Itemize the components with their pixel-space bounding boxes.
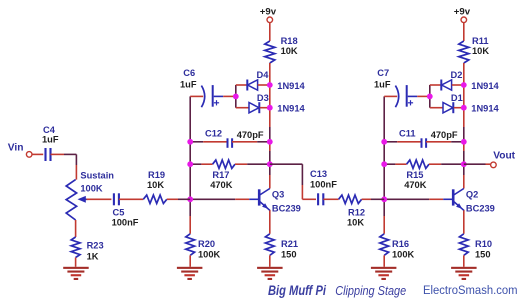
- svg-text:10K: 10K: [472, 46, 489, 56]
- svg-text:470pF: 470pF: [431, 130, 458, 140]
- svg-text:R16: R16: [392, 239, 409, 249]
- svg-text:Clipping Stage: Clipping Stage: [335, 283, 406, 298]
- svg-text:R21: R21: [281, 239, 298, 249]
- svg-text:10K: 10K: [281, 46, 298, 56]
- svg-text:150: 150: [281, 249, 297, 259]
- svg-text:1N914: 1N914: [471, 81, 499, 91]
- svg-text:D1: D1: [451, 93, 463, 103]
- svg-text:1N914: 1N914: [277, 104, 305, 114]
- svg-text:C6: C6: [183, 68, 195, 78]
- svg-text:Vin: Vin: [8, 143, 24, 154]
- svg-text:100K: 100K: [198, 249, 221, 259]
- svg-text:R18: R18: [281, 36, 298, 46]
- svg-text:1N914: 1N914: [277, 81, 305, 91]
- svg-text:D3: D3: [257, 93, 269, 103]
- svg-text:100K: 100K: [80, 184, 103, 194]
- svg-text:1uF: 1uF: [374, 79, 391, 89]
- svg-text:1N914: 1N914: [471, 104, 499, 114]
- svg-text:1uF: 1uF: [180, 79, 197, 89]
- svg-text:470K: 470K: [404, 180, 427, 190]
- svg-text:R12: R12: [348, 207, 365, 217]
- svg-text:Q3: Q3: [272, 190, 284, 200]
- svg-text:BC239: BC239: [466, 204, 495, 214]
- svg-text:R20: R20: [198, 239, 215, 249]
- svg-text:10K: 10K: [147, 180, 164, 190]
- svg-text:470K: 470K: [210, 180, 233, 190]
- svg-text:+9v: +9v: [454, 7, 471, 18]
- svg-text:C12: C12: [205, 129, 222, 139]
- svg-text:Sustain: Sustain: [80, 171, 114, 181]
- svg-text:R23: R23: [87, 240, 104, 250]
- svg-text:1K: 1K: [87, 252, 99, 262]
- svg-text:ElectroSmash.com: ElectroSmash.com: [423, 283, 518, 297]
- svg-text:C13: C13: [310, 169, 327, 179]
- svg-text:R17: R17: [212, 170, 229, 180]
- svg-text:R19: R19: [148, 170, 165, 180]
- svg-text:C7: C7: [377, 68, 389, 78]
- svg-text:100K: 100K: [392, 249, 415, 259]
- svg-text:Big Muff Pi: Big Muff Pi: [268, 283, 326, 298]
- svg-text:10K: 10K: [347, 217, 364, 227]
- svg-text:1uF: 1uF: [42, 135, 59, 145]
- svg-text:R10: R10: [475, 239, 492, 249]
- svg-text:D2: D2: [451, 70, 463, 80]
- svg-text:BC239: BC239: [272, 204, 301, 214]
- svg-text:C11: C11: [399, 129, 416, 139]
- svg-text:C4: C4: [43, 125, 56, 135]
- svg-text:R15: R15: [406, 170, 423, 180]
- svg-text:D4: D4: [257, 70, 270, 80]
- svg-text:Q2: Q2: [466, 190, 478, 200]
- svg-text:100nF: 100nF: [112, 217, 139, 227]
- svg-text:+9v: +9v: [260, 7, 277, 18]
- svg-text:150: 150: [475, 249, 491, 259]
- svg-text:470pF: 470pF: [237, 130, 264, 140]
- svg-text:C5: C5: [113, 207, 125, 217]
- svg-text:Vout: Vout: [493, 151, 515, 162]
- svg-text:100nF: 100nF: [310, 180, 337, 190]
- svg-text:R11: R11: [472, 36, 489, 46]
